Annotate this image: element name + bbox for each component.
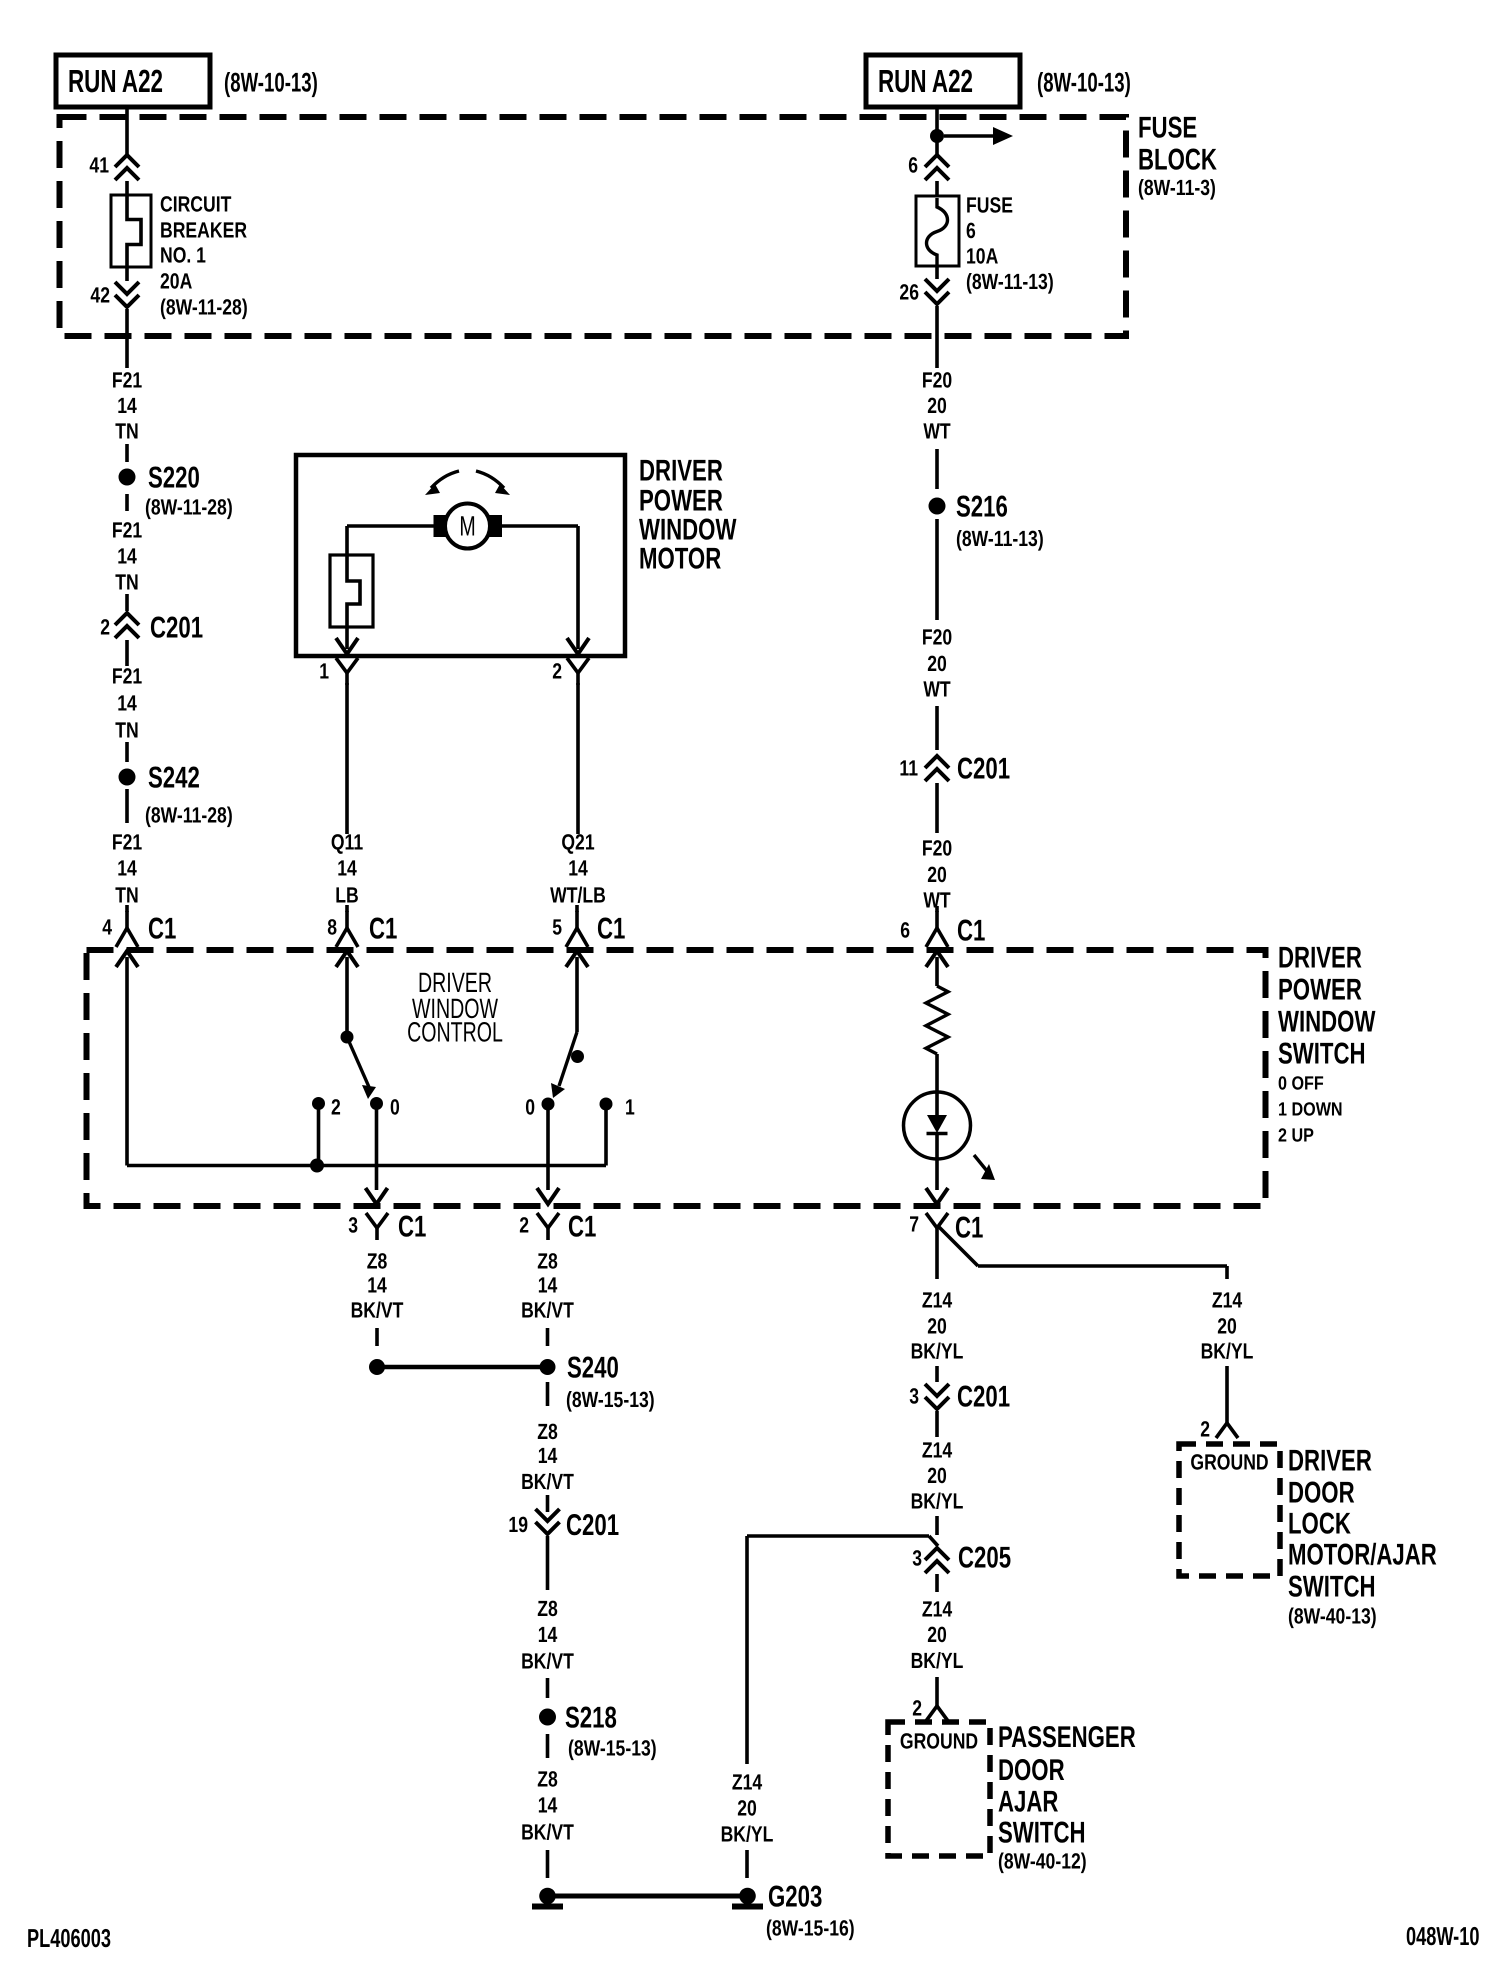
- svg-text:RUN A22: RUN A22: [878, 63, 973, 99]
- svg-text:20: 20: [927, 1622, 947, 1647]
- svg-text:C1: C1: [568, 1210, 596, 1243]
- svg-text:2: 2: [331, 1095, 341, 1120]
- svg-text:20: 20: [927, 393, 947, 418]
- svg-text:1 DOWN: 1 DOWN: [1278, 1100, 1343, 1121]
- svg-text:Q11: Q11: [331, 830, 363, 855]
- svg-text:BK/YL: BK/YL: [1201, 1339, 1254, 1364]
- svg-text:C205: C205: [958, 1541, 1011, 1574]
- svg-text:WT/LB: WT/LB: [550, 883, 606, 908]
- svg-text:6: 6: [908, 153, 918, 178]
- svg-text:4: 4: [102, 915, 112, 940]
- svg-text:2: 2: [912, 1696, 922, 1721]
- svg-text:F20: F20: [922, 625, 952, 650]
- svg-text:7: 7: [909, 1212, 919, 1237]
- svg-text:26: 26: [899, 280, 919, 305]
- svg-text:M: M: [459, 511, 475, 542]
- svg-text:C1: C1: [398, 1210, 426, 1243]
- svg-text:BK/VT: BK/VT: [521, 1469, 574, 1494]
- svg-text:Z14: Z14: [922, 1438, 953, 1463]
- svg-text:Z8: Z8: [537, 1767, 558, 1792]
- svg-text:(8W-11-28): (8W-11-28): [160, 295, 248, 320]
- svg-text:(8W-11-13): (8W-11-13): [966, 269, 1054, 294]
- svg-text:S218: S218: [565, 1701, 617, 1734]
- svg-text:14: 14: [538, 1443, 558, 1468]
- svg-text:C1: C1: [957, 914, 985, 947]
- svg-text:FUSE: FUSE: [1138, 111, 1197, 144]
- svg-text:(8W-40-13): (8W-40-13): [1288, 1604, 1377, 1629]
- svg-text:(8W-15-13): (8W-15-13): [568, 1736, 657, 1761]
- svg-text:CIRCUIT: CIRCUIT: [160, 192, 232, 217]
- svg-text:BREAKER: BREAKER: [160, 218, 247, 243]
- svg-text:Z14: Z14: [922, 1288, 953, 1313]
- svg-text:14: 14: [367, 1273, 387, 1298]
- svg-text:TN: TN: [115, 419, 138, 444]
- svg-text:WT: WT: [923, 419, 951, 444]
- svg-text:BK/VT: BK/VT: [521, 1649, 574, 1674]
- svg-text:DOOR: DOOR: [1288, 1476, 1355, 1509]
- svg-text:TN: TN: [115, 718, 138, 743]
- svg-text:BK/YL: BK/YL: [911, 1648, 964, 1673]
- svg-text:DOOR: DOOR: [998, 1754, 1065, 1787]
- svg-text:14: 14: [117, 856, 137, 881]
- svg-text:CONTROL: CONTROL: [407, 1017, 503, 1048]
- svg-text:DRIVER: DRIVER: [1288, 1444, 1372, 1477]
- svg-text:C201: C201: [150, 611, 203, 644]
- svg-text:C1: C1: [955, 1211, 983, 1244]
- svg-text:3: 3: [912, 1546, 922, 1571]
- svg-text:14: 14: [337, 856, 357, 881]
- svg-text:14: 14: [117, 544, 137, 569]
- svg-text:SWITCH: SWITCH: [1288, 1570, 1376, 1603]
- svg-text:20: 20: [927, 651, 947, 676]
- svg-text:(8W-11-28): (8W-11-28): [145, 495, 233, 520]
- svg-text:42: 42: [90, 283, 110, 308]
- svg-text:0: 0: [525, 1095, 535, 1120]
- svg-text:(8W-40-12): (8W-40-12): [998, 1849, 1087, 1874]
- svg-text:14: 14: [538, 1622, 558, 1647]
- svg-text:(8W-10-13): (8W-10-13): [224, 67, 318, 97]
- svg-text:C1: C1: [369, 912, 397, 945]
- svg-text:2: 2: [519, 1213, 529, 1238]
- svg-text:NO. 1: NO. 1: [160, 243, 206, 268]
- svg-text:20: 20: [927, 1314, 947, 1339]
- svg-text:BK/YL: BK/YL: [911, 1489, 964, 1514]
- svg-text:F21: F21: [112, 664, 142, 689]
- svg-text:MOTOR/AJAR: MOTOR/AJAR: [1288, 1538, 1437, 1571]
- svg-text:1: 1: [319, 659, 329, 684]
- svg-text:(8W-15-16): (8W-15-16): [766, 1916, 855, 1941]
- svg-text:LB: LB: [335, 883, 358, 908]
- svg-text:LOCK: LOCK: [1288, 1507, 1351, 1540]
- svg-text:14: 14: [538, 1273, 558, 1298]
- svg-text:S220: S220: [148, 461, 200, 494]
- svg-text:F21: F21: [112, 830, 142, 855]
- svg-text:Z8: Z8: [537, 1596, 558, 1621]
- svg-text:0: 0: [390, 1095, 400, 1120]
- svg-text:20: 20: [737, 1796, 757, 1821]
- svg-text:3: 3: [909, 1384, 919, 1409]
- svg-text:BK/VT: BK/VT: [521, 1820, 574, 1845]
- svg-text:2: 2: [1200, 1417, 1210, 1442]
- svg-text:PL406003: PL406003: [27, 1923, 111, 1953]
- svg-text:PASSENGER: PASSENGER: [998, 1721, 1136, 1754]
- svg-text:POWER: POWER: [1278, 973, 1362, 1006]
- svg-text:C201: C201: [566, 1509, 619, 1542]
- svg-text:C201: C201: [957, 1380, 1010, 1413]
- svg-text:20: 20: [1217, 1314, 1237, 1339]
- svg-text:6: 6: [966, 218, 976, 243]
- svg-text:048W-10: 048W-10: [1406, 1921, 1479, 1951]
- svg-text:Q21: Q21: [561, 830, 594, 855]
- svg-text:WT: WT: [923, 677, 951, 702]
- svg-text:AJAR: AJAR: [998, 1785, 1059, 1818]
- svg-text:Z8: Z8: [367, 1249, 388, 1274]
- svg-text:(8W-11-28): (8W-11-28): [145, 803, 233, 828]
- svg-text:19: 19: [508, 1512, 528, 1537]
- svg-text:3: 3: [348, 1213, 358, 1238]
- svg-text:C1: C1: [597, 912, 625, 945]
- svg-text:F20: F20: [922, 368, 952, 393]
- svg-text:Z14: Z14: [922, 1597, 953, 1622]
- svg-text:11: 11: [899, 756, 918, 781]
- svg-text:G203: G203: [768, 1880, 822, 1913]
- svg-text:1: 1: [625, 1095, 635, 1120]
- svg-text:TN: TN: [115, 883, 138, 908]
- svg-text:0 OFF: 0 OFF: [1278, 1074, 1324, 1095]
- svg-text:14: 14: [117, 393, 137, 418]
- svg-text:2: 2: [100, 615, 110, 640]
- svg-text:GROUND: GROUND: [1190, 1450, 1268, 1475]
- svg-text:SWITCH: SWITCH: [1278, 1037, 1366, 1070]
- svg-text:F21: F21: [112, 518, 142, 543]
- svg-text:14: 14: [117, 691, 137, 716]
- svg-text:Z14: Z14: [732, 1770, 763, 1795]
- svg-text:DRIVER: DRIVER: [639, 454, 723, 487]
- svg-text:(8W-11-3): (8W-11-3): [1138, 175, 1216, 200]
- svg-text:BK/VT: BK/VT: [521, 1298, 574, 1323]
- svg-text:F21: F21: [112, 368, 142, 393]
- svg-text:WINDOW: WINDOW: [1278, 1005, 1376, 1038]
- svg-text:Z14: Z14: [1212, 1288, 1243, 1313]
- svg-text:S240: S240: [567, 1351, 619, 1384]
- svg-text:DRIVER: DRIVER: [1278, 941, 1362, 974]
- svg-text:RUN A22: RUN A22: [68, 63, 163, 99]
- svg-text:SWITCH: SWITCH: [998, 1816, 1086, 1849]
- svg-text:BK/VT: BK/VT: [351, 1298, 404, 1323]
- svg-text:S242: S242: [148, 761, 200, 794]
- svg-text:GROUND: GROUND: [900, 1729, 978, 1754]
- svg-text:TN: TN: [115, 570, 138, 595]
- svg-text:(8W-11-13): (8W-11-13): [956, 526, 1044, 551]
- svg-text:Z8: Z8: [537, 1419, 558, 1444]
- svg-text:2: 2: [552, 659, 562, 684]
- svg-text:20: 20: [927, 862, 947, 887]
- svg-text:6: 6: [900, 918, 910, 943]
- svg-text:10A: 10A: [966, 244, 998, 269]
- svg-text:BK/YL: BK/YL: [721, 1822, 774, 1847]
- svg-text:20: 20: [927, 1463, 947, 1488]
- svg-text:2 UP: 2 UP: [1278, 1126, 1314, 1147]
- svg-text:C201: C201: [957, 752, 1010, 785]
- svg-text:BK/YL: BK/YL: [911, 1339, 964, 1364]
- svg-text:41: 41: [89, 153, 109, 178]
- svg-text:Z8: Z8: [537, 1249, 558, 1274]
- svg-text:(8W-15-13): (8W-15-13): [566, 1387, 655, 1412]
- svg-text:MOTOR: MOTOR: [639, 542, 721, 575]
- svg-text:BLOCK: BLOCK: [1138, 143, 1217, 176]
- svg-text:F20: F20: [922, 836, 952, 861]
- svg-text:FUSE: FUSE: [966, 193, 1013, 218]
- svg-text:5: 5: [552, 915, 562, 940]
- svg-text:14: 14: [568, 856, 588, 881]
- svg-text:8: 8: [327, 915, 337, 940]
- svg-text:14: 14: [538, 1793, 558, 1818]
- svg-text:S216: S216: [956, 490, 1008, 523]
- svg-text:20A: 20A: [160, 269, 192, 294]
- svg-text:C1: C1: [148, 912, 176, 945]
- svg-text:(8W-10-13): (8W-10-13): [1037, 67, 1131, 97]
